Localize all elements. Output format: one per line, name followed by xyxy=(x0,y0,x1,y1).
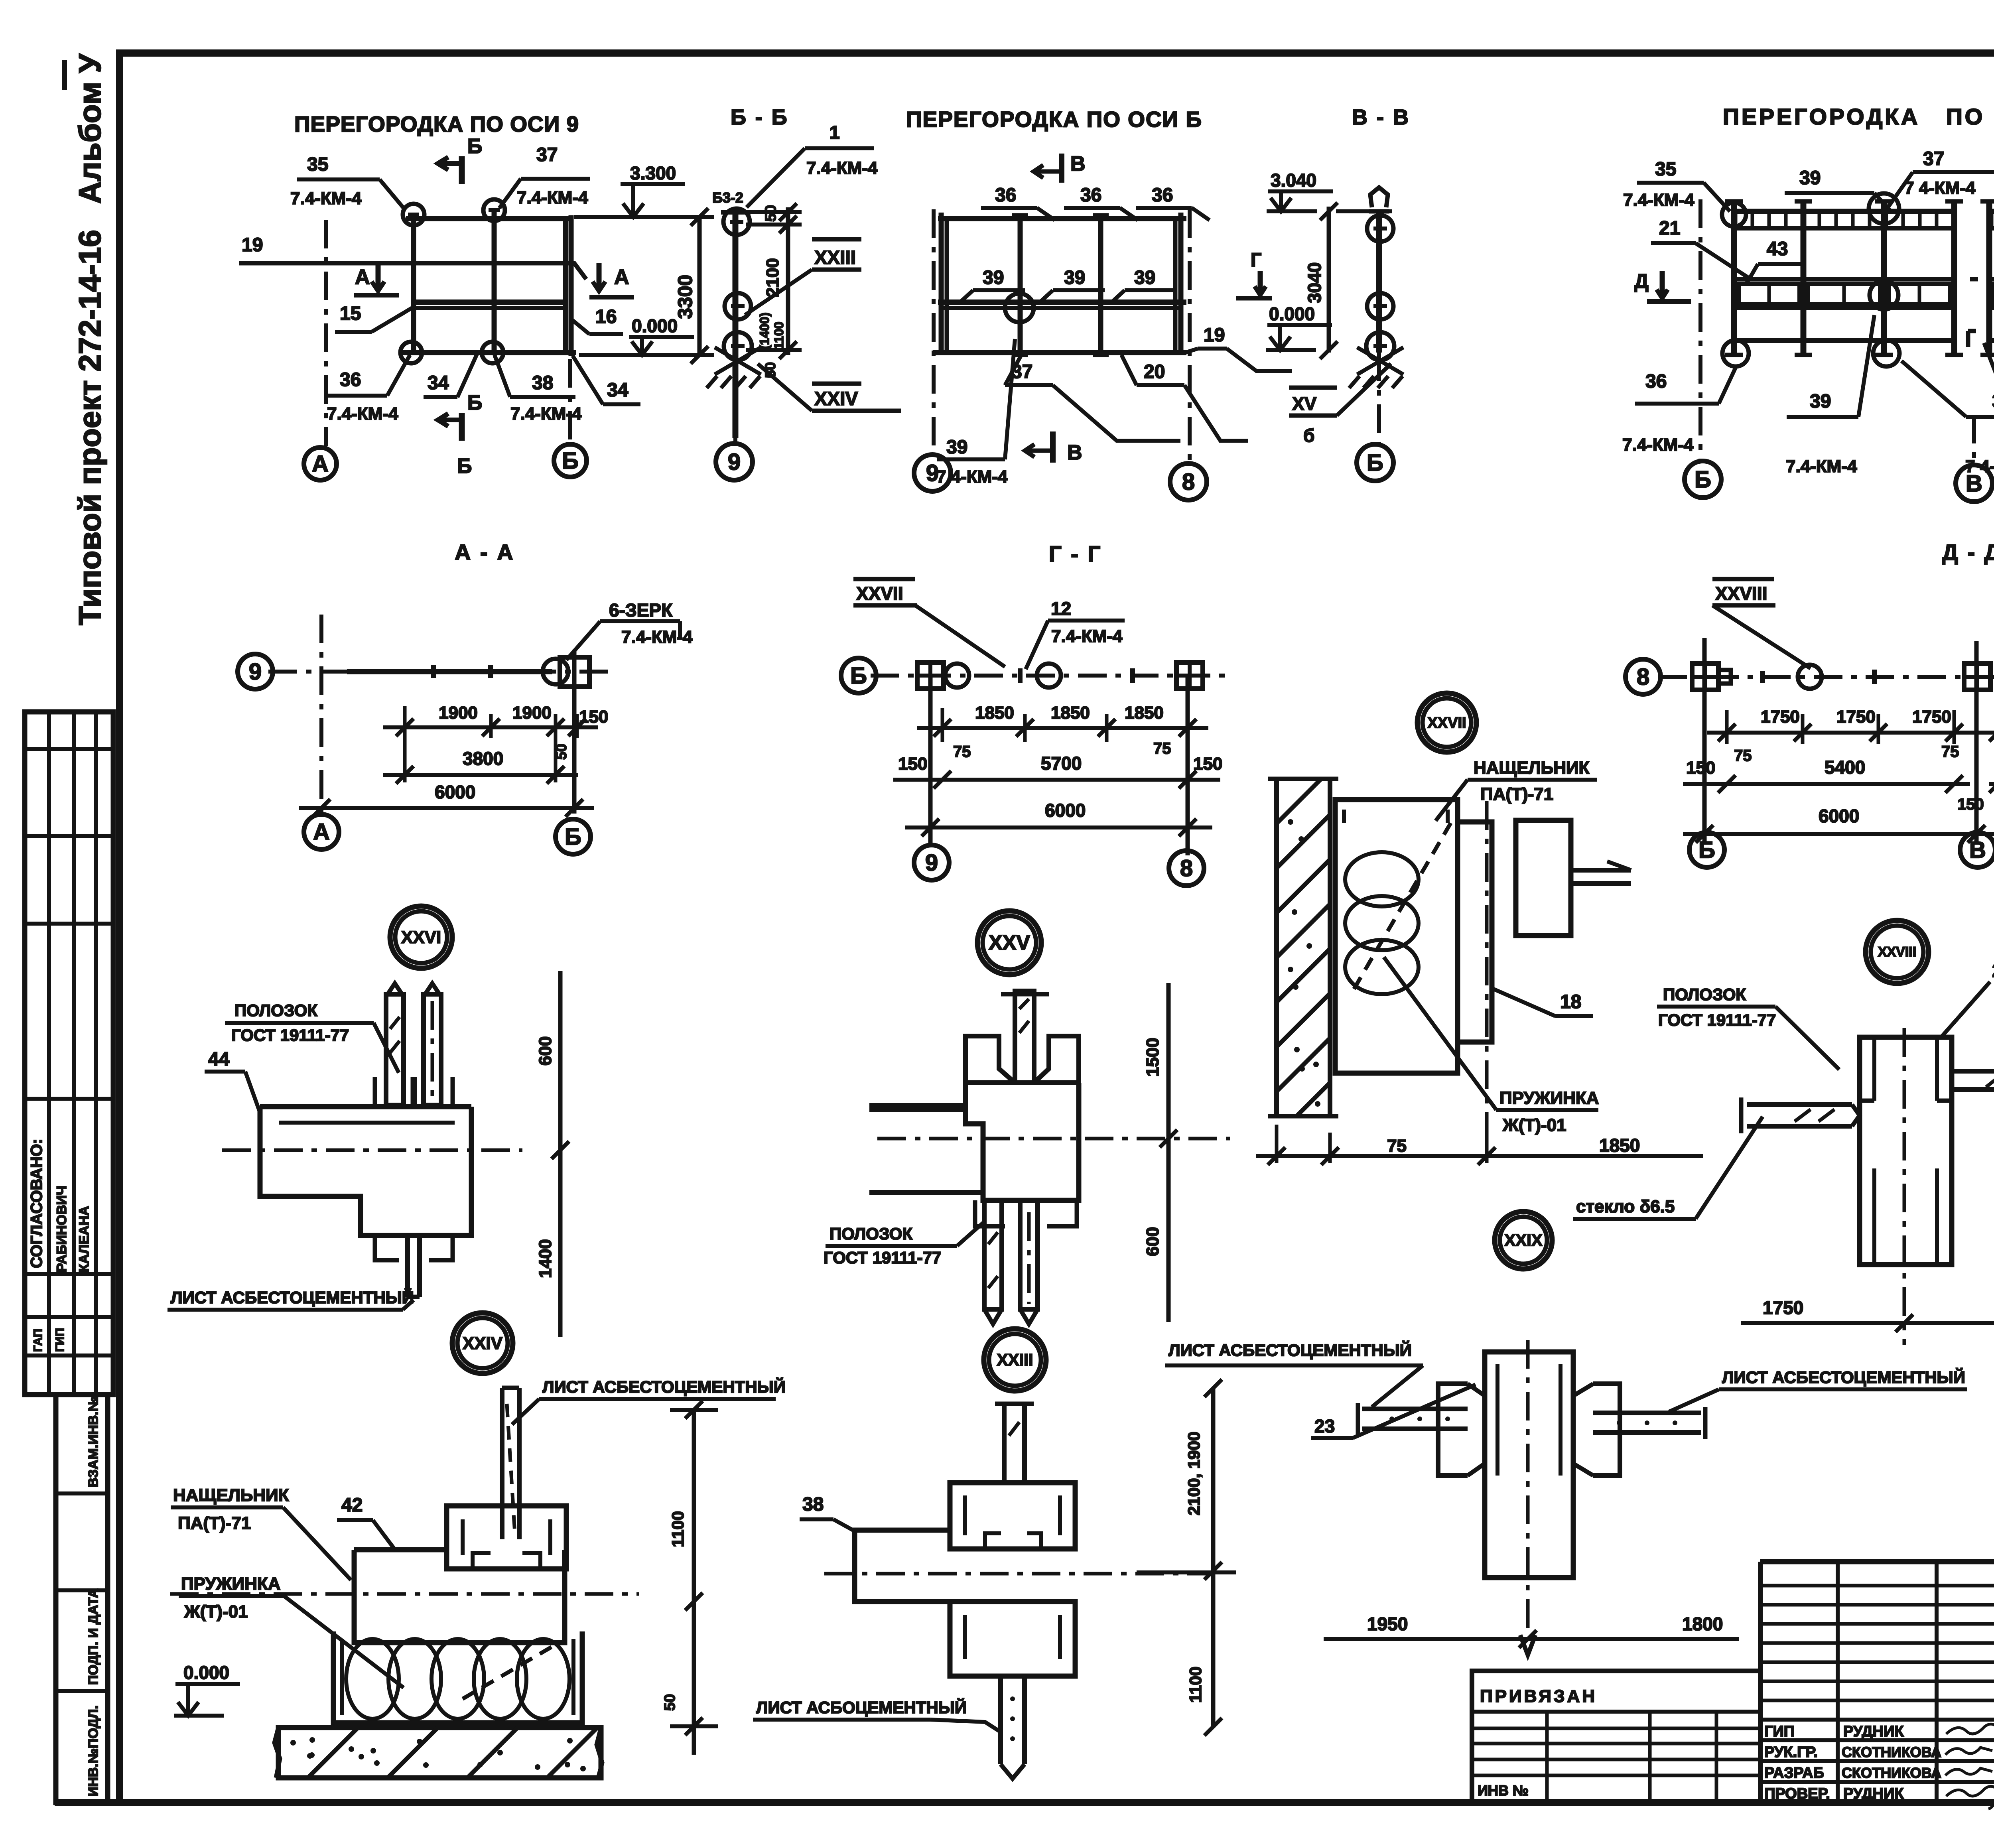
svg-text:КАЛЕАНА: КАЛЕАНА xyxy=(77,1206,92,1272)
svg-text:XXIV: XXIV xyxy=(814,388,858,410)
svg-text:37: 37 xyxy=(1923,148,1944,169)
svg-text:РУДНИК: РУДНИК xyxy=(1843,1785,1904,1802)
svg-text:1850: 1850 xyxy=(975,703,1014,723)
svg-text:Б: Б xyxy=(467,391,482,414)
badge XXIV xyxy=(452,1313,513,1373)
D-D axis horizontal xyxy=(1658,675,1994,679)
svg-text:ПРУЖИНКА: ПРУЖИНКА xyxy=(1499,1088,1599,1108)
svg-text:А - А: А - А xyxy=(455,540,515,565)
svg-text:А: А xyxy=(312,451,329,477)
svg-text:3300: 3300 xyxy=(674,275,696,319)
XXVII wall hatched strip xyxy=(1274,779,1279,1116)
left margin approval table (СОГЛАСОВАНО) xyxy=(25,712,113,1395)
A-A stud marks on plan xyxy=(431,665,436,678)
svg-text:СКОТНИКОВА: СКОТНИКОВА xyxy=(1842,1744,1941,1760)
axis circle Б under V-V xyxy=(1377,353,1381,443)
svg-text:23: 23 xyxy=(1992,960,1994,981)
svg-text:Б: Б xyxy=(850,663,867,689)
axis circle Б at G-G xyxy=(841,658,876,693)
svg-text:стекло δ6.5: стекло δ6.5 xyxy=(1576,1197,1675,1216)
svg-text:38: 38 xyxy=(802,1494,824,1515)
svg-text:50: 50 xyxy=(662,1694,678,1711)
svg-text:РАЗРАБ: РАЗРАБ xyxy=(1764,1765,1824,1781)
left margin stamp strip (inventory columns) xyxy=(56,1395,108,1803)
svg-text:Б: Б xyxy=(1695,467,1711,493)
G-G small circles xyxy=(945,664,969,688)
svg-text:ГОСТ 19111-77: ГОСТ 19111-77 xyxy=(1658,1011,1776,1029)
XXIV spring dashed tie xyxy=(463,1643,558,1699)
V-V post vertical xyxy=(1376,211,1382,353)
title block signature columns xyxy=(1836,1562,1840,1803)
svg-text:37: 37 xyxy=(536,144,558,165)
svg-text:21: 21 xyxy=(1659,218,1680,239)
svg-text:43: 43 xyxy=(1767,238,1788,260)
G-G crossed post right xyxy=(1176,662,1203,689)
partition 9 mid rail xyxy=(412,299,568,305)
svg-text:44: 44 xyxy=(208,1049,230,1070)
svg-text:ИНВ №: ИНВ № xyxy=(1478,1782,1529,1799)
B-B fastener circles xyxy=(723,209,750,235)
svg-text:ХХVI: ХХVI xyxy=(401,928,441,947)
svg-text:7.4-КМ-4: 7.4-КМ-4 xyxy=(1623,190,1695,210)
svg-text:1850: 1850 xyxy=(1051,703,1090,723)
partition8 fastener circles xyxy=(1722,203,1746,227)
XXIX central post xyxy=(1485,1352,1573,1578)
XXIX left cup profile xyxy=(1438,1384,1468,1476)
svg-text:ХV: ХV xyxy=(1292,393,1317,414)
svg-text:9: 9 xyxy=(728,449,741,475)
svg-text:3.040: 3.040 xyxy=(1271,170,1316,191)
svg-text:РУК.ГР.: РУК.ГР. xyxy=(1764,1744,1818,1761)
V-V dim 3040 xyxy=(1336,209,1392,213)
svg-text:7.4-КМ-4: 7.4-КМ-4 xyxy=(290,189,362,208)
svg-text:ХХVIII: ХХVIII xyxy=(1715,583,1767,604)
svg-text:1750: 1750 xyxy=(1836,707,1876,727)
G-G axis horizontal xyxy=(871,674,1230,678)
svg-text:3.300: 3.300 xyxy=(630,163,676,183)
svg-text:А: А xyxy=(614,266,629,289)
svg-text:150: 150 xyxy=(898,754,927,774)
svg-text:ХХIV: ХХIV xyxy=(463,1334,503,1353)
svg-text:Б: Б xyxy=(565,824,581,850)
svg-text:ГИП: ГИП xyxy=(1764,1723,1795,1740)
svg-text:19: 19 xyxy=(242,234,263,256)
badge XXVI xyxy=(390,906,452,968)
XXIV spring xyxy=(346,1639,399,1719)
XXVI pane cups xyxy=(375,1077,415,1107)
axis circle 8 bottom G-G xyxy=(1169,851,1204,886)
axis circle В bottom D-D xyxy=(1960,832,1994,867)
svg-text:б: б xyxy=(1303,425,1314,446)
XXVII panel centerline xyxy=(1485,801,1489,1156)
svg-text:ПА(Т)-71: ПА(Т)-71 xyxy=(1480,784,1553,804)
XXVII spring xyxy=(1345,852,1419,906)
svg-text:ПЕРЕГОРОДКА ПО ОСИ 9: ПЕРЕГОРОДКА ПО ОСИ 9 xyxy=(294,112,579,136)
G-G vertical guide left xyxy=(928,676,933,843)
svg-text:600: 600 xyxy=(536,1036,555,1066)
D-D crossed post right xyxy=(1964,664,1990,690)
XXVII right profile xyxy=(1516,820,1571,936)
B-B ground hatch xyxy=(715,347,761,374)
svg-text:ЛИСТ АСБЕСТОЦЕМЕНТНЫЙ: ЛИСТ АСБЕСТОЦЕМЕНТНЫЙ xyxy=(171,1288,414,1307)
section mark B top xyxy=(459,156,465,184)
svg-text:СКОТНИКОВА: СКОТНИКОВА xyxy=(1842,1765,1941,1781)
V-V fastener circles xyxy=(1367,215,1393,242)
svg-text:20: 20 xyxy=(1144,361,1165,382)
svg-text:6000: 6000 xyxy=(1045,800,1086,821)
XXVII profile box xyxy=(1335,800,1458,831)
partition Б left double edge xyxy=(939,213,944,355)
svg-text:Типовой проект 272-14-16 Аль: Типовой проект 272-14-16 Альбом У xyxy=(72,53,107,625)
axis circle 8 at D-D xyxy=(1626,659,1661,694)
XXVII dashed diagonals xyxy=(1354,822,1452,989)
B-B dim chain 50/2100/1100/50 xyxy=(746,210,802,214)
svg-text:7.4-КМ-4: 7.4-КМ-4 xyxy=(1051,627,1123,646)
svg-text:75: 75 xyxy=(1941,743,1959,760)
signature squiggles xyxy=(1945,1724,1994,1809)
XXVIII post centerline xyxy=(1903,1028,1906,1345)
svg-text:Б: Б xyxy=(1698,837,1715,863)
label XXIII ref at B-B xyxy=(812,237,861,242)
XXIII top pane xyxy=(1002,1406,1007,1484)
XXV bottom pane 1 xyxy=(984,1200,1002,1309)
axis circle 9 under B-B xyxy=(733,438,737,443)
svg-text:А: А xyxy=(313,819,330,845)
svg-text:НАЩЕЛЬНИК: НАЩЕЛЬНИК xyxy=(1474,758,1590,778)
label XXVII ref xyxy=(853,577,915,581)
partition Б mid rail xyxy=(938,299,1186,305)
axis circle Б bottom D-D xyxy=(1689,832,1724,867)
svg-text:Д - Д: Д - Д xyxy=(1942,540,1994,565)
svg-text:19: 19 xyxy=(1204,325,1225,346)
svg-text:РУДНИК: РУДНИК xyxy=(1843,1723,1904,1740)
XXIX left pane xyxy=(1362,1407,1468,1411)
svg-text:39: 39 xyxy=(1799,167,1821,189)
svg-text:1750: 1750 xyxy=(1912,707,1951,727)
svg-text:7.4-КМ-4: 7.4-КМ-4 xyxy=(1786,457,1857,476)
svg-text:ПОЛОЗОК: ПОЛОЗОК xyxy=(1663,985,1746,1004)
svg-text:В: В xyxy=(1969,837,1986,863)
XXIII bottom profile xyxy=(950,1602,1075,1676)
svg-text:Б: Б xyxy=(467,135,482,158)
svg-text:18: 18 xyxy=(1560,991,1581,1013)
svg-text:7.4-КМ-4: 7.4-КМ-4 xyxy=(517,188,588,207)
svg-text:7.4-КМ-4: 7.4-КМ-4 xyxy=(936,467,1008,487)
svg-text:5400: 5400 xyxy=(1825,757,1865,778)
svg-text:ПРОВЕР.: ПРОВЕР. xyxy=(1764,1785,1830,1802)
ПРИВЯЗАН box xyxy=(1472,1671,1760,1803)
stud left xyxy=(411,219,416,353)
svg-text:39: 39 xyxy=(1134,267,1155,288)
XXV bottom pane 2 xyxy=(1020,1200,1038,1309)
svg-text:Г: Г xyxy=(1251,250,1261,271)
svg-text:1100: 1100 xyxy=(668,1511,687,1547)
stud middle xyxy=(492,209,497,353)
svg-text:ЛИСТ АСБОЦЕМЕНТНЫЙ: ЛИСТ АСБОЦЕМЕНТНЫЙ xyxy=(756,1698,967,1717)
axis circle A bottom xyxy=(304,814,339,849)
svg-text:РАБИНОВИЧ: РАБИНОВИЧ xyxy=(54,1186,69,1272)
partition8 left bay top chord + glazing strip xyxy=(1731,209,1954,214)
svg-text:8: 8 xyxy=(1180,855,1193,881)
svg-text:6000: 6000 xyxy=(435,782,475,802)
axis circle 8 xyxy=(1170,463,1207,500)
XXV left rails xyxy=(869,1103,965,1108)
XXVI glass pane left xyxy=(386,994,404,1105)
svg-text:ГОСТ 19111-77: ГОСТ 19111-77 xyxy=(824,1248,941,1267)
axis line V right xyxy=(1972,415,1976,465)
svg-text:Б - Б: Б - Б xyxy=(731,105,789,129)
XXVIII right pane xyxy=(1953,1069,1994,1074)
axis line Б left xyxy=(1698,199,1702,461)
svg-text:35: 35 xyxy=(307,154,328,175)
svg-text:ЛИСТ АСБЕСТОЦЕМЕНТНЫЙ: ЛИСТ АСБЕСТОЦЕМЕНТНЫЙ xyxy=(1168,1340,1412,1359)
axis line A vertical xyxy=(324,220,328,446)
XXIII bottom pane xyxy=(998,1676,1003,1764)
svg-text:ХХIII: ХХIII xyxy=(997,1350,1033,1369)
XXVI glass pane right xyxy=(424,994,441,1105)
svg-text:7 4-КМ-4: 7 4-КМ-4 xyxy=(1904,178,1976,198)
svg-text:39: 39 xyxy=(946,437,967,458)
svg-text:НАЩЕЛЬНИК: НАЩЕЛЬНИК xyxy=(173,1485,289,1505)
svg-text:150: 150 xyxy=(1957,796,1984,813)
XXIX post centerline xyxy=(1526,1340,1530,1635)
svg-text:75: 75 xyxy=(1153,740,1171,757)
partition 9 bottom chord xyxy=(401,350,576,355)
badge XXV xyxy=(977,911,1041,975)
svg-text:16: 16 xyxy=(595,306,617,327)
svg-text:3800: 3800 xyxy=(463,748,503,769)
D-D small circles xyxy=(1798,665,1822,689)
V-V top symbol xyxy=(1370,187,1388,207)
svg-text:34: 34 xyxy=(607,380,629,401)
svg-text:7.4-КМ-4: 7.4-КМ-4 xyxy=(327,404,398,424)
svg-text:9: 9 xyxy=(925,850,938,876)
svg-text:Д: Д xyxy=(1634,270,1649,292)
XXVI profile body xyxy=(260,1104,471,1109)
XXVI centerline xyxy=(222,1149,522,1152)
svg-text:ГОСТ 19111-77: ГОСТ 19111-77 xyxy=(231,1026,349,1044)
svg-text:0.000: 0.000 xyxy=(1269,303,1315,324)
XXV top profile cup xyxy=(965,1036,1015,1083)
svg-text:Б3-2: Б3-2 xyxy=(712,189,743,206)
svg-text:1900: 1900 xyxy=(512,703,552,723)
svg-text:600: 600 xyxy=(1143,1227,1163,1256)
svg-text:ПОЛОЗОК: ПОЛОЗОК xyxy=(234,1001,317,1020)
partition8 studs xyxy=(1731,201,1737,355)
A-A circle at mirror xyxy=(543,659,568,684)
svg-text:1100: 1100 xyxy=(772,322,786,349)
title block revision table thin rows xyxy=(1758,1562,1763,1803)
svg-text:1750: 1750 xyxy=(1763,1297,1803,1318)
svg-text:Б: Б xyxy=(457,455,472,478)
label XV + b xyxy=(1289,386,1337,390)
axis circle Б xyxy=(1685,461,1721,498)
svg-text:6-ЗЕРК: 6-ЗЕРК xyxy=(609,600,673,621)
svg-text:0.000: 0.000 xyxy=(632,315,678,336)
svg-text:1: 1 xyxy=(830,122,840,143)
partition Б top chord xyxy=(938,216,1186,221)
svg-text:1800: 1800 xyxy=(1682,1614,1723,1634)
XXIII top profile xyxy=(950,1483,1075,1549)
partition Б studs xyxy=(1018,215,1023,355)
svg-text:ГИП: ГИП xyxy=(53,1328,67,1352)
XXVIII central post xyxy=(1860,1037,1952,1265)
svg-text:39: 39 xyxy=(1064,267,1085,288)
svg-text:1900: 1900 xyxy=(439,703,478,723)
D-D vertical guides xyxy=(1702,638,1707,841)
partition 9 top chord xyxy=(406,216,573,221)
XXIII rail body xyxy=(855,1530,950,1602)
axis circle A xyxy=(304,447,337,480)
XXV top glass pane xyxy=(1015,991,1034,1083)
svg-text:ПРИВЯЗАН: ПРИВЯЗАН xyxy=(1480,1686,1597,1706)
svg-text:ХХVII: ХХVII xyxy=(1427,715,1466,731)
A-A axis horizontal xyxy=(268,670,616,674)
svg-text:0.000: 0.000 xyxy=(183,1662,229,1683)
label XXVIII ref at D-D xyxy=(1712,577,1774,581)
svg-text:ГАП: ГАП xyxy=(32,1329,45,1352)
XXIV bottom spring box xyxy=(333,1631,582,1723)
XXV dim 1500 600 xyxy=(1166,983,1171,1322)
svg-text:23: 23 xyxy=(1314,1416,1335,1436)
svg-text:3040: 3040 xyxy=(1304,262,1325,303)
axis line B vertical right xyxy=(568,359,572,441)
svg-text:150: 150 xyxy=(1686,758,1715,778)
svg-text:42: 42 xyxy=(341,1495,363,1516)
svg-text:Б: Б xyxy=(562,448,579,474)
svg-text:7.4-КМ-4: 7.4-КМ-4 xyxy=(1622,435,1694,455)
axis line 9 left xyxy=(932,209,936,455)
svg-text:75: 75 xyxy=(1734,747,1752,764)
XXIV top profile box xyxy=(447,1506,566,1569)
partition Б right double edge xyxy=(1173,219,1178,353)
svg-text:А: А xyxy=(355,266,370,289)
partition Б bottom chord xyxy=(933,350,1186,355)
signature rows xyxy=(1760,1718,1994,1722)
svg-text:36: 36 xyxy=(1080,185,1101,206)
svg-text:1750: 1750 xyxy=(1761,707,1800,727)
XXVII sliding panel xyxy=(1458,822,1492,1042)
XXV body xyxy=(965,1083,1079,1200)
svg-text:ПА(Т)-71: ПА(Т)-71 xyxy=(178,1513,251,1533)
XXIV centerline xyxy=(170,1592,639,1596)
svg-text:(1400): (1400) xyxy=(757,313,772,350)
A-A mirror symbol square xyxy=(560,657,589,687)
axis circle 9 bottom G-G xyxy=(914,845,949,880)
svg-text:Ж(Т)-01: Ж(Т)-01 xyxy=(1502,1115,1566,1135)
partition8 mid rail band with panels xyxy=(1731,277,1954,282)
svg-text:СОГЛАСОВАНО:: СОГЛАСОВАНО: xyxy=(28,1139,45,1268)
XXIV floor slab hatched xyxy=(278,1728,601,1778)
A-A right wall line xyxy=(572,650,577,814)
svg-text:2100, 1900: 2100, 1900 xyxy=(1184,1432,1203,1515)
XXIII centerline xyxy=(824,1572,1212,1576)
svg-text:7.4-КМ-4: 7.4-КМ-4 xyxy=(510,404,582,424)
svg-text:ПОЛОЗОК: ПОЛОЗОК xyxy=(830,1224,912,1243)
svg-text:ЛИСТ АСБЕСТОЦЕМЕНТНЫЙ: ЛИСТ АСБЕСТОЦЕМЕНТНЫЙ xyxy=(1722,1367,1965,1387)
svg-text:7.4-КМ-4: 7.4-КМ-4 xyxy=(621,627,693,647)
section mark B bottom xyxy=(459,413,465,441)
svg-text:ПОДП. И ДАТА: ПОДП. И ДАТА xyxy=(86,1588,101,1685)
svg-text:7.4-КМ-4: 7.4-КМ-4 xyxy=(806,158,878,178)
XXIX right pane xyxy=(1593,1411,1701,1415)
svg-text:XXIII: XXIII xyxy=(814,247,856,268)
svg-text:ХХVII: ХХVII xyxy=(856,583,903,604)
XXIX right cup profile xyxy=(1593,1384,1620,1476)
partition8 doorway gap marks xyxy=(1970,277,1978,282)
svg-text:ХХVIII: ХХVIII xyxy=(1878,944,1916,959)
svg-text:36: 36 xyxy=(1645,371,1667,392)
partition8 right bay glazing strip xyxy=(1987,209,1994,214)
svg-text:ПЕРЕГОРОДКА ПО ОСИ 8: ПЕРЕГОРОДКА ПО ОСИ 8 xyxy=(1723,104,1994,130)
svg-text:75: 75 xyxy=(953,743,971,760)
axis line 8 right xyxy=(1188,209,1192,462)
svg-text:В: В xyxy=(1070,152,1086,175)
B-B post vertical line xyxy=(733,212,739,438)
svg-text:8: 8 xyxy=(1182,469,1195,495)
svg-text:Г - Г: Г - Г xyxy=(1049,541,1102,566)
svg-text:Б: Б xyxy=(1367,450,1383,476)
svg-text:ПЕРЕГОРОДКА ПО ОСИ Б: ПЕРЕГОРОДКА ПО ОСИ Б xyxy=(906,107,1202,132)
G-G crossed post left xyxy=(917,662,944,689)
svg-text:8: 8 xyxy=(1637,664,1649,690)
svg-text:7 4-КМ-4: 7 4-КМ-4 xyxy=(1965,457,1994,476)
XXV bottom cups xyxy=(975,1200,1005,1226)
vertical dim 3300 partition 9 xyxy=(574,215,714,219)
svg-text:5700: 5700 xyxy=(1041,753,1082,774)
XXVI dim 600 1400 xyxy=(558,971,563,1337)
V-V ground hatch xyxy=(1357,347,1403,374)
D-D crossed post left xyxy=(1692,664,1718,690)
svg-text:1850: 1850 xyxy=(1125,703,1164,723)
svg-text:ХХV: ХХV xyxy=(989,931,1030,954)
svg-text:В - В: В - В xyxy=(1352,105,1410,129)
svg-text:6000: 6000 xyxy=(1819,806,1859,826)
fastener circles xyxy=(403,204,424,225)
svg-text:36: 36 xyxy=(995,185,1016,206)
badge XXVII xyxy=(1417,693,1476,752)
svg-text:ХХIХ: ХХIХ xyxy=(1504,1231,1543,1249)
svg-text:34: 34 xyxy=(428,372,449,394)
svg-text:1850: 1850 xyxy=(1599,1135,1640,1156)
svg-text:50: 50 xyxy=(763,205,779,222)
axis circle Б bottom right xyxy=(556,819,591,854)
A-A partition thick line xyxy=(347,669,552,674)
XXIV vertical sheet xyxy=(500,1388,504,1539)
svg-text:Ж(Т)-01: Ж(Т)-01 xyxy=(184,1602,248,1621)
svg-text:ЛИСТ АСБЕСТОЦЕМЕНТНЫЙ: ЛИСТ АСБЕСТОЦЕМЕНТНЫЙ xyxy=(542,1377,786,1396)
XXIV sliding panel xyxy=(354,1550,565,1643)
svg-text:ВЗАМ.ИНВ.№: ВЗАМ.ИНВ.№ xyxy=(86,1396,101,1487)
svg-text:1400: 1400 xyxy=(536,1239,555,1278)
svg-text:9: 9 xyxy=(249,659,262,685)
fastener circle on mid rail xyxy=(1005,294,1034,322)
A-A vertical axis line xyxy=(319,615,323,814)
XXVIII left pane xyxy=(1747,1102,1852,1107)
svg-text:1950: 1950 xyxy=(1367,1614,1408,1634)
badge XXIII xyxy=(984,1329,1046,1391)
svg-text:1500: 1500 xyxy=(1143,1038,1163,1077)
svg-text:ПРУЖИНКА: ПРУЖИНКА xyxy=(181,1574,281,1594)
svg-text:36: 36 xyxy=(1152,185,1173,206)
svg-text:36: 36 xyxy=(340,369,361,390)
G-G vertical guide right xyxy=(1186,676,1190,855)
B-B top cap xyxy=(721,210,751,215)
svg-text:В: В xyxy=(1067,441,1082,464)
svg-text:39: 39 xyxy=(983,267,1004,288)
XXIII right dim 2100 1900 1100 xyxy=(1211,1388,1216,1727)
svg-text:38: 38 xyxy=(532,372,553,394)
